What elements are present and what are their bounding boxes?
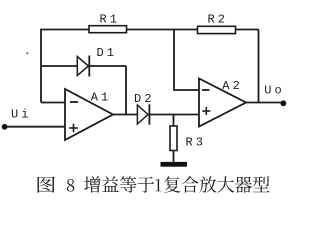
wire Ui input to A1 non-inverting input (5, 126, 66, 128)
svg-text:Uo: Uo (264, 84, 284, 98)
wire A1 inverting input lead (41, 102, 65, 104)
caption 图 8 增益等于1复合放大器型 (38, 176, 270, 193)
op-amp A1 (65, 89, 113, 140)
wire R3 tap down from A1 output row (173, 115, 175, 163)
wire D1 cathode down to A1 output row (125, 66, 127, 115)
svg-text:A2: A2 (222, 79, 242, 93)
ground (161, 162, 188, 167)
svg-text:R3: R3 (186, 136, 206, 150)
wire D1 row y=66 (41, 65, 126, 67)
svg-text:Ui: Ui (11, 108, 31, 122)
resistor R1 (89, 12, 127, 32)
svg-text:R2: R2 (208, 12, 228, 26)
resistor R3 (170, 126, 206, 151)
svg-text:R1: R1 (100, 12, 120, 26)
wire R2 right vertical down to output node (258, 30, 260, 103)
node Uo terminal dot (281, 100, 287, 106)
wire A2 inverting input from top bus (174, 30, 199, 91)
resistor R2 (198, 12, 236, 33)
node Ui terminal dot (2, 124, 8, 130)
svg-text:D2: D2 (134, 92, 154, 106)
wire A1 output row through D2 to A2 non-inverting input (113, 114, 199, 116)
op-amp A2 (199, 79, 246, 127)
wire top feedback bus y=29.5 from left vertical to R2 right corner (41, 30, 259, 103)
stray speck (26, 52, 28, 54)
wire A2 output to Uo terminal (246, 102, 284, 104)
diode D1 (77, 46, 117, 77)
diode D2 (134, 92, 154, 125)
svg-text:A1: A1 (91, 90, 111, 104)
svg-text:D1: D1 (97, 46, 117, 60)
